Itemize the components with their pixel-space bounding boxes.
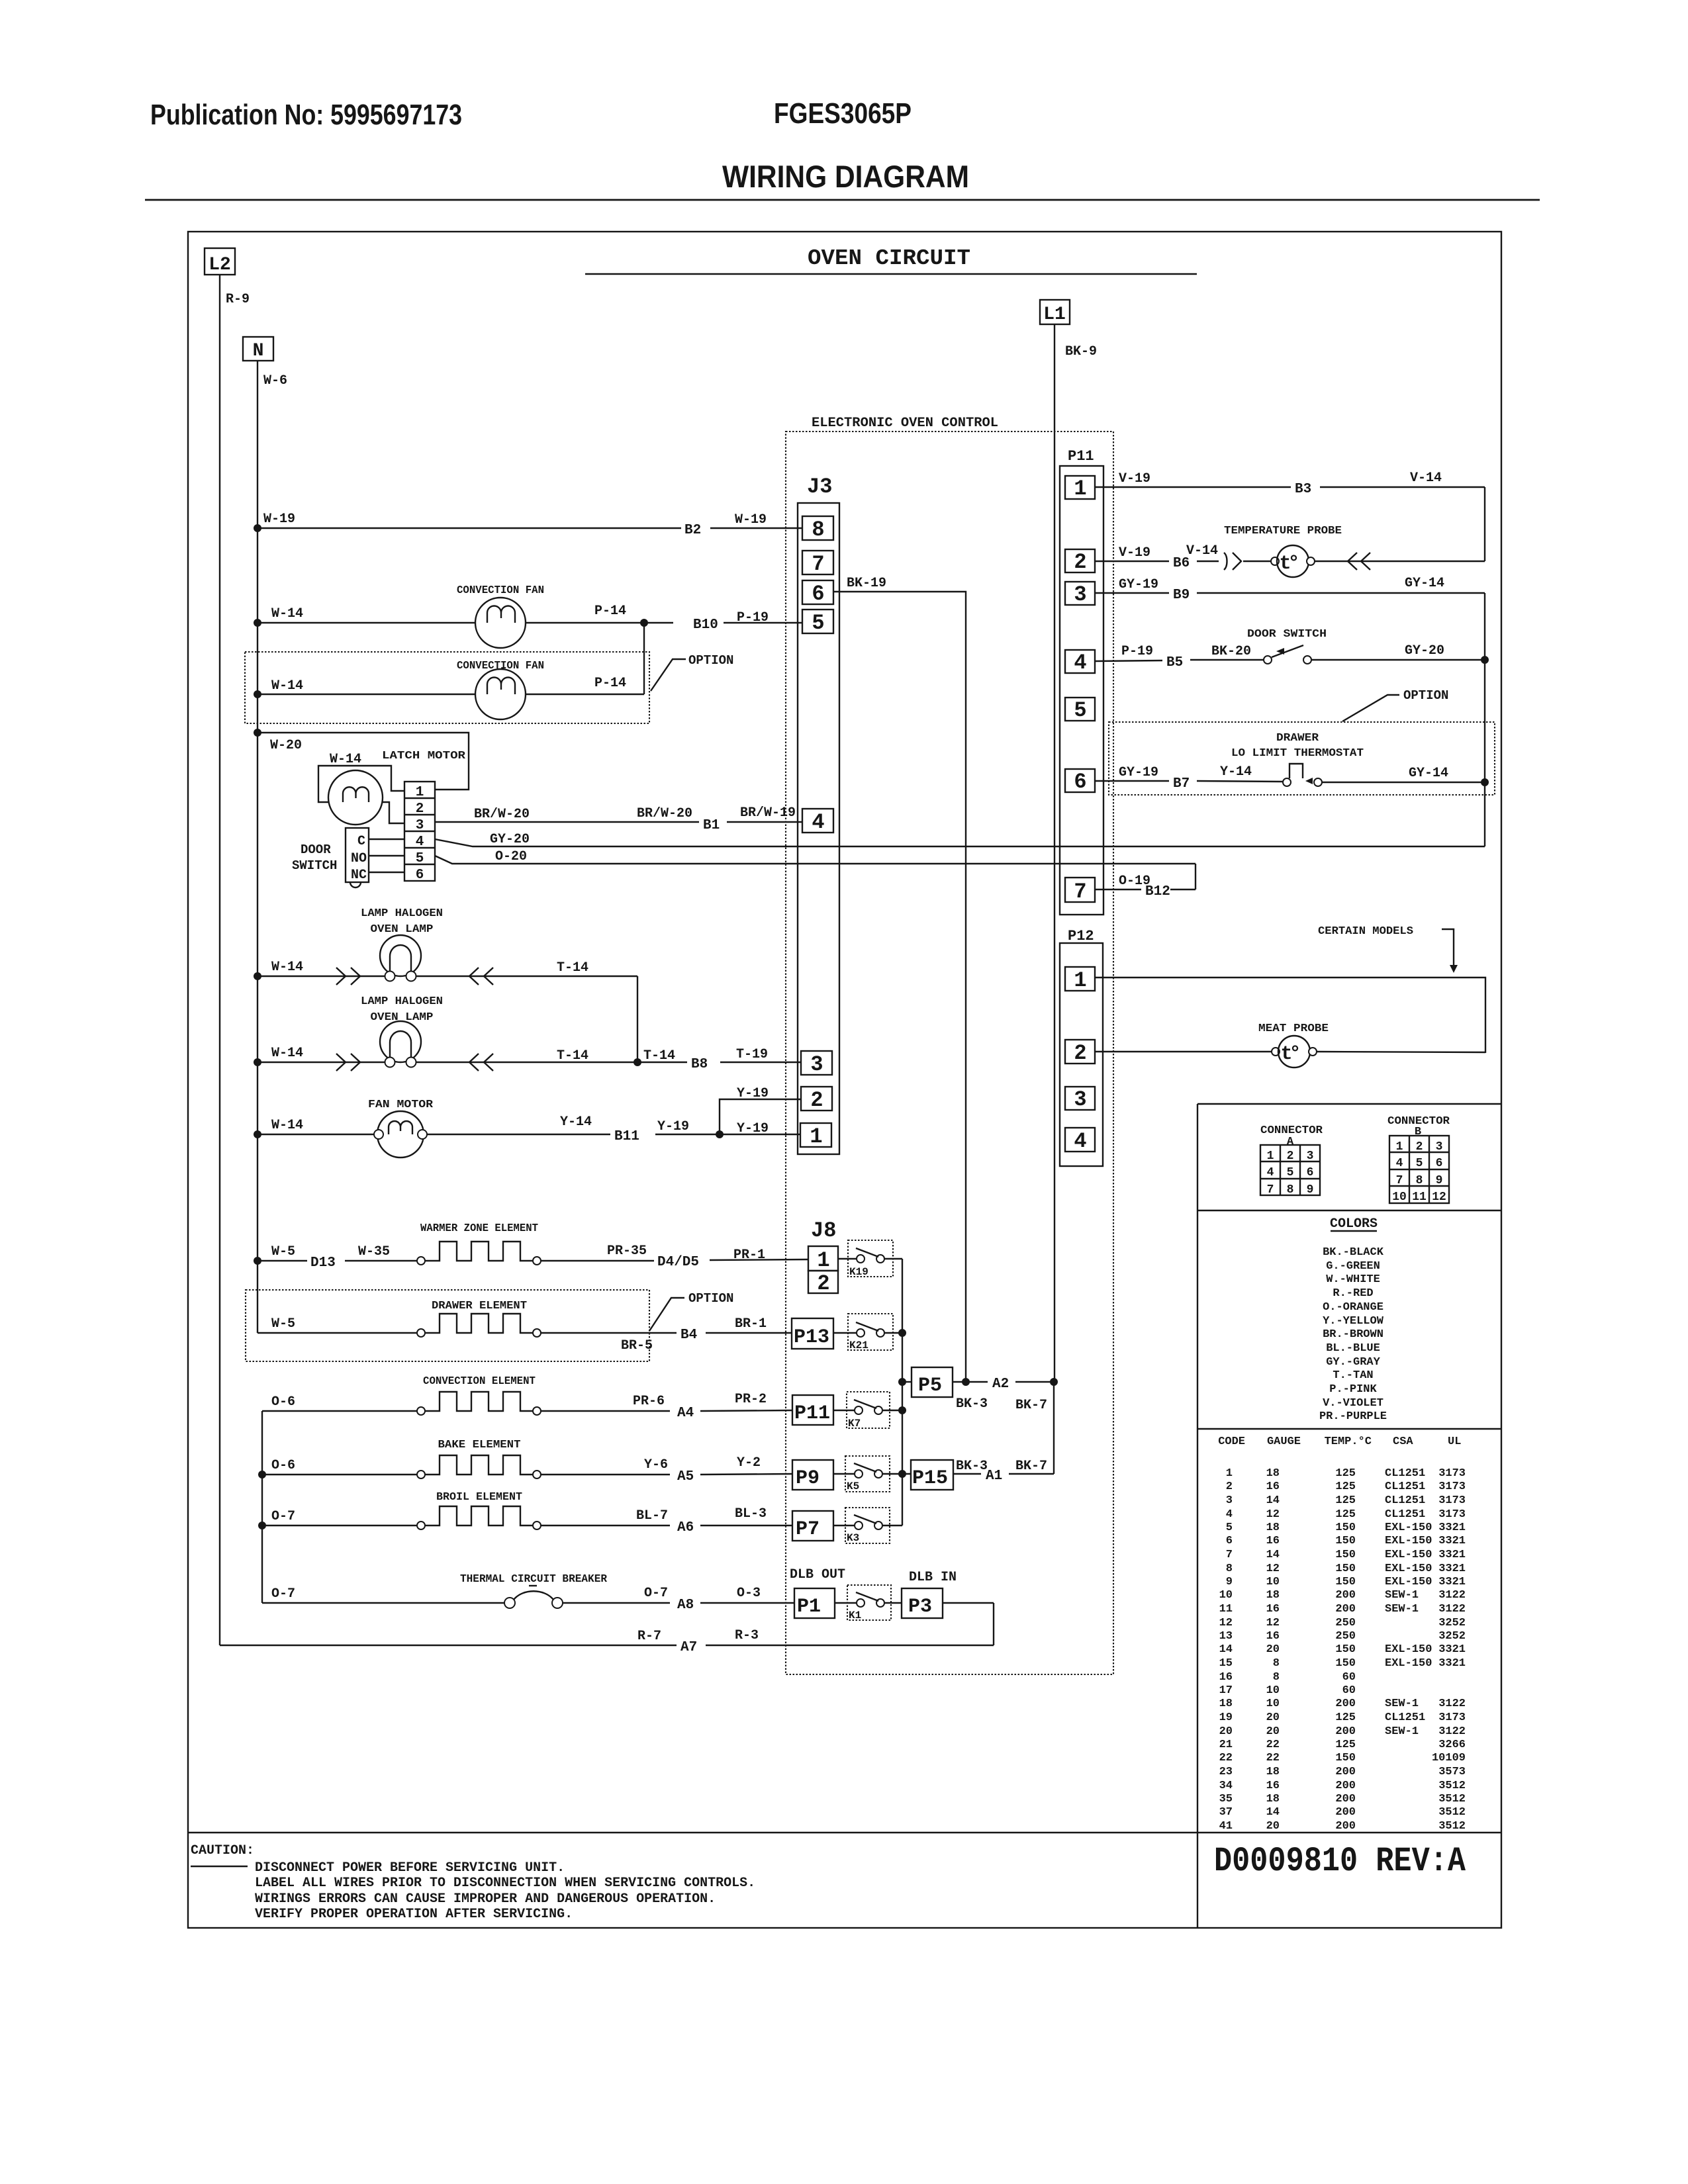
svg-text:B9: B9 (1173, 588, 1190, 603)
svg-text:BR-5: BR-5 (621, 1338, 653, 1353)
svg-text:BK-20: BK-20 (1211, 644, 1251, 659)
svg-text:8: 8 (1273, 1657, 1280, 1670)
label CONNECTOR B (1387, 1115, 1450, 1138)
svg-text:T.-TAN: T.-TAN (1333, 1369, 1373, 1382)
svg-text:150: 150 (1335, 1563, 1356, 1575)
connector J3 pin 3 (801, 1051, 832, 1077)
door switch S1 (346, 828, 369, 887)
svg-text:3: 3 (1436, 1140, 1443, 1154)
node junction P-14 (640, 619, 648, 627)
label OPTION thermostat leader (1342, 688, 1448, 721)
svg-text:FGES3065P: FGES3065P (774, 97, 912, 130)
svg-text:DRAWER ELEMENT: DRAWER ELEMENT (432, 1300, 527, 1312)
svg-text:200: 200 (1335, 1780, 1356, 1792)
svg-text:14: 14 (1266, 1494, 1280, 1507)
svg-text:18: 18 (1219, 1698, 1233, 1710)
svg-text:B2: B2 (684, 523, 701, 538)
svg-text:9: 9 (1436, 1174, 1443, 1187)
node junction Y-19 (716, 1130, 724, 1138)
svg-text:20: 20 (1266, 1711, 1280, 1724)
legend box left edge (1197, 1104, 1198, 1928)
wire W-19 row to J3 pin 8 (258, 512, 802, 538)
connector J3 pin 5 (802, 610, 833, 635)
node junction fan motor (254, 1130, 261, 1138)
svg-text:Y-6: Y-6 (644, 1457, 668, 1473)
svg-text:BR/W-19: BR/W-19 (740, 805, 796, 821)
svg-text:3252: 3252 (1438, 1630, 1466, 1643)
svg-text:A7: A7 (680, 1640, 697, 1655)
svg-text:125: 125 (1335, 1480, 1356, 1493)
svg-text:BL.-BLUE: BL.-BLUE (1326, 1342, 1380, 1355)
svg-text:20: 20 (1266, 1725, 1280, 1738)
wire thermostat to GY vertical (1322, 766, 1485, 782)
svg-text:T-14: T-14 (643, 1048, 675, 1064)
relay K1 (847, 1585, 891, 1621)
svg-text:SEW-1: SEW-1 (1385, 1589, 1419, 1602)
svg-text:O.-ORANGE: O.-ORANGE (1323, 1301, 1383, 1314)
svg-text:T-19: T-19 (736, 1047, 768, 1062)
connector P11 pin 1 (1065, 476, 1095, 501)
plug P9 (792, 1460, 833, 1490)
svg-text:A4: A4 (677, 1406, 694, 1421)
wire L2 vertical (219, 275, 220, 1645)
svg-text:22: 22 (1266, 1739, 1280, 1751)
wire lamp 1 row (258, 960, 637, 985)
svg-text:R-9: R-9 (226, 292, 250, 307)
wire P5 to A2 (953, 1377, 1054, 1413)
wire O-20 drop to B12 (1195, 864, 1196, 889)
svg-text:P.-PINK: P.-PINK (1329, 1383, 1377, 1396)
wire P9 to relay K5 (833, 1473, 855, 1475)
svg-text:B5: B5 (1166, 655, 1183, 670)
svg-text:1: 1 (1396, 1140, 1403, 1154)
svg-text:1: 1 (416, 785, 424, 800)
svg-text:10: 10 (1266, 1576, 1280, 1588)
node junction lamp1 (254, 972, 261, 980)
svg-text:4: 4 (1267, 1166, 1274, 1179)
title underline (585, 273, 1197, 275)
wire P3 out (943, 1602, 994, 1604)
svg-text:K5: K5 (847, 1480, 859, 1492)
wire gauge table header (1218, 1435, 1461, 1448)
wire thermal breaker row to P1 (262, 1586, 794, 1613)
svg-text:OPTION: OPTION (688, 653, 733, 668)
svg-text:GY-14: GY-14 (1405, 576, 1444, 591)
svg-text:B10: B10 (693, 617, 718, 633)
svg-text:BK-9: BK-9 (1065, 344, 1097, 359)
svg-text:ELECTRONIC OVEN CONTROL: ELECTRONIC OVEN CONTROL (812, 416, 998, 431)
svg-text:6: 6 (1307, 1166, 1314, 1179)
svg-text:14: 14 (1266, 1549, 1280, 1561)
svg-text:Y-2: Y-2 (737, 1455, 761, 1471)
node junction K7 out (898, 1406, 906, 1414)
svg-text:FAN MOTOR: FAN MOTOR (368, 1099, 434, 1111)
svg-text:5: 5 (1074, 698, 1086, 723)
svg-text:THERMAL CIRCUIT BREAKER: THERMAL CIRCUIT BREAKER (460, 1573, 608, 1586)
connector J8 pin 2 (808, 1271, 838, 1296)
svg-text:W-5: W-5 (271, 1316, 295, 1332)
svg-text:D4/D5: D4/D5 (657, 1255, 699, 1270)
svg-text:CL1251: CL1251 (1385, 1494, 1425, 1507)
svg-text:150: 150 (1335, 1643, 1356, 1656)
bake element R4 (417, 1455, 541, 1479)
wire K1 to P3 (884, 1602, 902, 1604)
svg-text:16: 16 (1219, 1671, 1233, 1684)
svg-text:BK.-BLACK: BK.-BLACK (1323, 1246, 1384, 1259)
svg-text:WIRING DIAGRAM: WIRING DIAGRAM (722, 159, 969, 194)
svg-text:2: 2 (416, 801, 424, 817)
thermal circuit breaker CB1 (504, 1586, 563, 1608)
node junction BK-9 at A2 (1050, 1378, 1058, 1386)
wire P11 pin1 B3 V-14 (1095, 471, 1485, 497)
svg-text:5: 5 (1416, 1157, 1423, 1170)
svg-text:DLB IN: DLB IN (909, 1570, 957, 1585)
svg-text:3321: 3321 (1438, 1535, 1466, 1547)
svg-text:BROIL ELEMENT: BROIL ELEMENT (436, 1491, 522, 1504)
svg-text:CL1251: CL1251 (1385, 1508, 1425, 1521)
svg-text:CAUTION:: CAUTION: (191, 1843, 254, 1858)
convection fan 2 motor (475, 669, 526, 719)
svg-text:1: 1 (1226, 1467, 1233, 1480)
connector P11 pin 4 (1065, 650, 1095, 675)
svg-text:O-7: O-7 (644, 1586, 668, 1601)
wire P11 pin2 B6 to temp probe (1095, 543, 1271, 571)
svg-text:125: 125 (1335, 1739, 1356, 1751)
svg-text:8: 8 (1273, 1671, 1280, 1684)
svg-text:O-3: O-3 (737, 1586, 761, 1601)
label OPTION drawer leader (649, 1291, 733, 1331)
svg-text:3512: 3512 (1438, 1780, 1466, 1792)
svg-text:6: 6 (1226, 1535, 1233, 1547)
svg-text:5: 5 (416, 851, 424, 866)
svg-text:3173: 3173 (1438, 1711, 1466, 1724)
wire P13 to relay K21 (833, 1332, 857, 1334)
wire latch pin 3 BR/W-20 to J3 pin 4 (435, 805, 802, 833)
svg-text:K7: K7 (848, 1418, 861, 1430)
svg-text:1: 1 (810, 1124, 822, 1149)
svg-text:4: 4 (812, 810, 824, 835)
door switch S2 (1264, 645, 1311, 664)
svg-text:K3: K3 (847, 1532, 859, 1544)
connector J3 shell (798, 503, 839, 1154)
svg-text:3512: 3512 (1438, 1806, 1466, 1819)
svg-text:10109: 10109 (1432, 1752, 1466, 1764)
svg-text:B8: B8 (691, 1057, 708, 1072)
wire latch motor to pin 3 (383, 802, 404, 823)
node N (243, 337, 273, 361)
svg-text:150: 150 (1335, 1657, 1356, 1670)
connector J3 pin 7 (802, 551, 833, 576)
svg-text:6: 6 (416, 868, 424, 883)
wire K5 to P15 (882, 1473, 911, 1475)
svg-text:V-14: V-14 (1410, 471, 1442, 486)
broil element R5 (417, 1506, 541, 1529)
connector B pin grid (1389, 1136, 1449, 1204)
svg-text:GY.-GRAY: GY.-GRAY (1326, 1356, 1380, 1369)
svg-text:W-14: W-14 (271, 678, 303, 694)
wire K3 to bus (882, 1525, 902, 1526)
wire P1 to relay K1 (835, 1602, 857, 1604)
svg-text:EXL-150: EXL-150 (1385, 1657, 1432, 1670)
svg-text:10: 10 (1266, 1698, 1280, 1710)
svg-text:8: 8 (1416, 1174, 1423, 1187)
svg-text:3122: 3122 (1438, 1589, 1466, 1602)
svg-text:W-19: W-19 (735, 512, 767, 527)
svg-text:18: 18 (1266, 1766, 1280, 1778)
connector J8 pin 1 (808, 1246, 838, 1273)
svg-text:41: 41 (1219, 1820, 1233, 1833)
svg-text:60: 60 (1342, 1671, 1356, 1684)
svg-text:14: 14 (1219, 1643, 1233, 1656)
wire latch motor top loop (318, 766, 404, 802)
svg-text:B3: B3 (1295, 482, 1311, 497)
connector P11 pin 2 (1065, 549, 1095, 574)
plug P1 (794, 1588, 835, 1618)
svg-text:SEW-1: SEW-1 (1385, 1603, 1419, 1615)
svg-text:GAUGE: GAUGE (1267, 1435, 1301, 1448)
svg-text:3321: 3321 (1438, 1563, 1466, 1575)
connector P11 pin 5 (1065, 698, 1095, 723)
svg-text:200: 200 (1335, 1589, 1356, 1602)
wire door switch C (369, 839, 404, 840)
svg-text:W-14: W-14 (271, 1118, 303, 1133)
svg-text:CONVECTION FAN: CONVECTION FAN (457, 660, 544, 672)
svg-text:O-7: O-7 (271, 1586, 295, 1602)
connector P11 pin 6 (1065, 769, 1095, 794)
svg-text:7: 7 (1074, 880, 1086, 904)
svg-text:EXL-150: EXL-150 (1385, 1535, 1432, 1547)
svg-text:OPTION: OPTION (688, 1291, 733, 1306)
svg-text:BK-3: BK-3 (956, 1396, 988, 1412)
svg-text:O-6: O-6 (271, 1394, 295, 1410)
wire W-20 to latch pin 1 (258, 733, 469, 790)
node junction broil (258, 1522, 266, 1529)
svg-text:N: N (253, 341, 264, 361)
label CONNECTOR A (1260, 1124, 1323, 1148)
connector J3 pin 2 (801, 1087, 832, 1113)
svg-text:8: 8 (1287, 1183, 1294, 1197)
wire P11 pin7 B12 O-19 (1095, 874, 1196, 899)
svg-text:EXL-150: EXL-150 (1385, 1563, 1432, 1575)
wire bake element row to P9 (262, 1455, 792, 1484)
wire meat probe right (1317, 1052, 1485, 1052)
wire door switch NO (369, 855, 404, 856)
wire warmer zone row to J8 pin 1 (258, 1244, 808, 1271)
wire fan riser (643, 623, 645, 694)
svg-text:P5: P5 (918, 1375, 942, 1397)
header rule (145, 199, 1540, 201)
svg-text:P-14: P-14 (594, 604, 626, 619)
svg-text:3173: 3173 (1438, 1494, 1466, 1507)
svg-text:T-14: T-14 (557, 960, 588, 976)
wire R row L2 to DLB IN (220, 1628, 994, 1655)
wire latch pin 5 O-20 (435, 849, 1196, 864)
svg-text:UL: UL (1448, 1435, 1461, 1448)
plug P15 (911, 1460, 953, 1490)
svg-text:125: 125 (1335, 1508, 1356, 1521)
wire gauge table rows (1219, 1467, 1466, 1833)
svg-text:8: 8 (1226, 1563, 1233, 1575)
svg-text:BAKE ELEMENT: BAKE ELEMENT (438, 1439, 521, 1451)
svg-text:12: 12 (1266, 1508, 1280, 1521)
label DOOR SWITCH (292, 842, 337, 873)
svg-text:4: 4 (1074, 651, 1086, 675)
svg-text:CERTAIN MODELS: CERTAIN MODELS (1318, 925, 1413, 938)
wire P11 to relay K7 (833, 1410, 855, 1411)
svg-text:9: 9 (1307, 1183, 1314, 1197)
node L2 (205, 248, 235, 275)
svg-text:6: 6 (1436, 1157, 1443, 1170)
legend box top edge (1197, 1103, 1501, 1105)
wire P12 pin1 loop (1095, 978, 1485, 1053)
svg-text:125: 125 (1335, 1467, 1356, 1480)
connector A pin grid (1260, 1145, 1320, 1197)
relay K21 (848, 1314, 893, 1351)
warmer zone element R1 (417, 1242, 541, 1265)
svg-text:3122: 3122 (1438, 1725, 1466, 1738)
svg-text:V-14: V-14 (1186, 543, 1218, 559)
svg-text:V.-VIOLET: V.-VIOLET (1323, 1397, 1383, 1410)
convection fan 1 motor (475, 598, 526, 648)
svg-text:A5: A5 (677, 1469, 694, 1484)
svg-text:DOOR: DOOR (301, 842, 331, 857)
connector P12 pin 4 (1065, 1128, 1095, 1154)
svg-text:W-14: W-14 (330, 752, 361, 767)
svg-text:34: 34 (1219, 1780, 1233, 1792)
svg-text:Y-14: Y-14 (560, 1115, 592, 1130)
svg-text:BR.-BROWN: BR.-BROWN (1323, 1328, 1383, 1341)
svg-text:GY-19: GY-19 (1119, 577, 1158, 592)
svg-text:BK-7: BK-7 (1015, 1398, 1047, 1413)
svg-text:16: 16 (1266, 1630, 1280, 1643)
svg-text:2: 2 (817, 1271, 829, 1296)
svg-text:1: 1 (1074, 477, 1086, 501)
svg-text:P11: P11 (1068, 448, 1094, 465)
svg-text:W-14: W-14 (271, 960, 303, 975)
svg-text:EXL-150: EXL-150 (1385, 1522, 1432, 1534)
wire P7 to relay K3 (833, 1525, 855, 1526)
svg-text:VERIFY PROPER OPERATION AFTER: VERIFY PROPER OPERATION AFTER SERVICING. (255, 1907, 573, 1922)
svg-text:200: 200 (1335, 1603, 1356, 1615)
node junction W-19 (254, 524, 261, 532)
svg-text:150: 150 (1335, 1752, 1356, 1764)
svg-text:3173: 3173 (1438, 1508, 1466, 1521)
svg-text:20: 20 (1266, 1643, 1280, 1656)
connector J3 pin 8 (802, 516, 833, 542)
plug P5 (912, 1367, 953, 1397)
svg-text:NO: NO (351, 851, 367, 866)
svg-text:1: 1 (1074, 968, 1086, 993)
svg-text:60: 60 (1342, 1684, 1356, 1697)
svg-text:L1: L1 (1043, 304, 1066, 325)
svg-text:GY-20: GY-20 (490, 832, 530, 847)
svg-text:SWITCH: SWITCH (292, 858, 337, 873)
svg-text:GY-14: GY-14 (1409, 766, 1448, 781)
svg-text:125: 125 (1335, 1494, 1356, 1507)
svg-text:7: 7 (1396, 1174, 1403, 1187)
svg-text:COLORS: COLORS (1330, 1216, 1378, 1232)
svg-text:O-6: O-6 (271, 1458, 295, 1473)
oven lamp 2 (380, 1021, 421, 1068)
svg-text:L2: L2 (209, 255, 231, 275)
connector P12 shell (1060, 943, 1103, 1166)
wire broil element row to P7 (262, 1506, 792, 1535)
svg-text:SEW-1: SEW-1 (1385, 1725, 1419, 1738)
svg-text:200: 200 (1335, 1820, 1356, 1833)
svg-text:W.-WHITE: W.-WHITE (1326, 1273, 1380, 1286)
svg-text:3321: 3321 (1438, 1549, 1466, 1561)
node junction K21 out (898, 1329, 906, 1337)
svg-text:W-5: W-5 (271, 1244, 295, 1259)
svg-text:DISCONNECT POWER BEFORE SERVIC: DISCONNECT POWER BEFORE SERVICING UNIT. (255, 1860, 565, 1876)
svg-text:J3: J3 (807, 475, 832, 499)
connector J3 pin 4 (802, 809, 833, 835)
svg-text:3: 3 (1074, 582, 1086, 607)
svg-text:TEMP.°C: TEMP.°C (1325, 1435, 1372, 1448)
svg-text:6: 6 (812, 582, 824, 606)
svg-text:OVEN LAMP: OVEN LAMP (371, 923, 434, 936)
svg-text:Y-19: Y-19 (737, 1086, 769, 1101)
svg-text:3321: 3321 (1438, 1576, 1466, 1588)
svg-text:PR-1: PR-1 (733, 1248, 765, 1263)
svg-text:W-35: W-35 (358, 1244, 390, 1259)
node junction bake (258, 1471, 266, 1479)
svg-text:18: 18 (1266, 1793, 1280, 1805)
wire temp probe right (1315, 553, 1485, 570)
svg-text:G.-GREEN: G.-GREEN (1326, 1260, 1380, 1273)
svg-text:K19: K19 (849, 1266, 868, 1278)
wire Y-19 branch to J3 pin 2 (720, 1086, 801, 1134)
wire P12 pin2 to meat probe (1095, 1051, 1272, 1052)
drawer element R2 (417, 1314, 541, 1337)
legend divider under connectors (1197, 1210, 1501, 1211)
svg-text:DRAWER: DRAWER (1276, 732, 1319, 745)
plug P13 (792, 1318, 833, 1349)
svg-text:P1: P1 (797, 1596, 821, 1618)
label COLORS (1330, 1216, 1378, 1232)
svg-text:3252: 3252 (1438, 1617, 1466, 1629)
plug P11 (792, 1395, 833, 1425)
svg-text:T-14: T-14 (557, 1048, 588, 1064)
option box drawer element (246, 1290, 649, 1361)
connector P11 pin 7 (1065, 878, 1095, 904)
convection element R3 (417, 1392, 541, 1415)
svg-text:TEMPERATURE PROBE: TEMPERATURE PROBE (1224, 525, 1342, 537)
wire K21 to bus (884, 1332, 902, 1334)
label OPTION fan leader (651, 653, 733, 691)
wire drawer element row to P13 (258, 1316, 792, 1353)
node L1 (1040, 300, 1070, 325)
connector latch pin block (404, 782, 435, 883)
svg-text:EXL-150: EXL-150 (1385, 1549, 1432, 1561)
svg-text:13: 13 (1219, 1630, 1233, 1643)
svg-text:EXL-150: EXL-150 (1385, 1576, 1432, 1588)
label CERTAIN MODELS (1318, 925, 1458, 973)
svg-text:16: 16 (1266, 1480, 1280, 1493)
svg-text:DOOR SWITCH: DOOR SWITCH (1247, 628, 1327, 641)
wire latch pin 4 GY-20 (435, 832, 1485, 847)
svg-text:PR.-PURPLE: PR.-PURPLE (1319, 1410, 1387, 1423)
svg-text:PR-2: PR-2 (735, 1392, 767, 1407)
svg-text:125: 125 (1335, 1711, 1356, 1724)
connector P12 pin 1 (1065, 967, 1095, 993)
svg-text:CL1251: CL1251 (1385, 1711, 1425, 1724)
svg-text:P-14: P-14 (594, 676, 626, 691)
svg-text:BR-1: BR-1 (735, 1316, 767, 1332)
meat probe RT2 (1272, 1036, 1317, 1068)
label DRAWER LO LIMIT THERMOSTAT (1231, 732, 1364, 760)
svg-text:B7: B7 (1173, 776, 1190, 792)
